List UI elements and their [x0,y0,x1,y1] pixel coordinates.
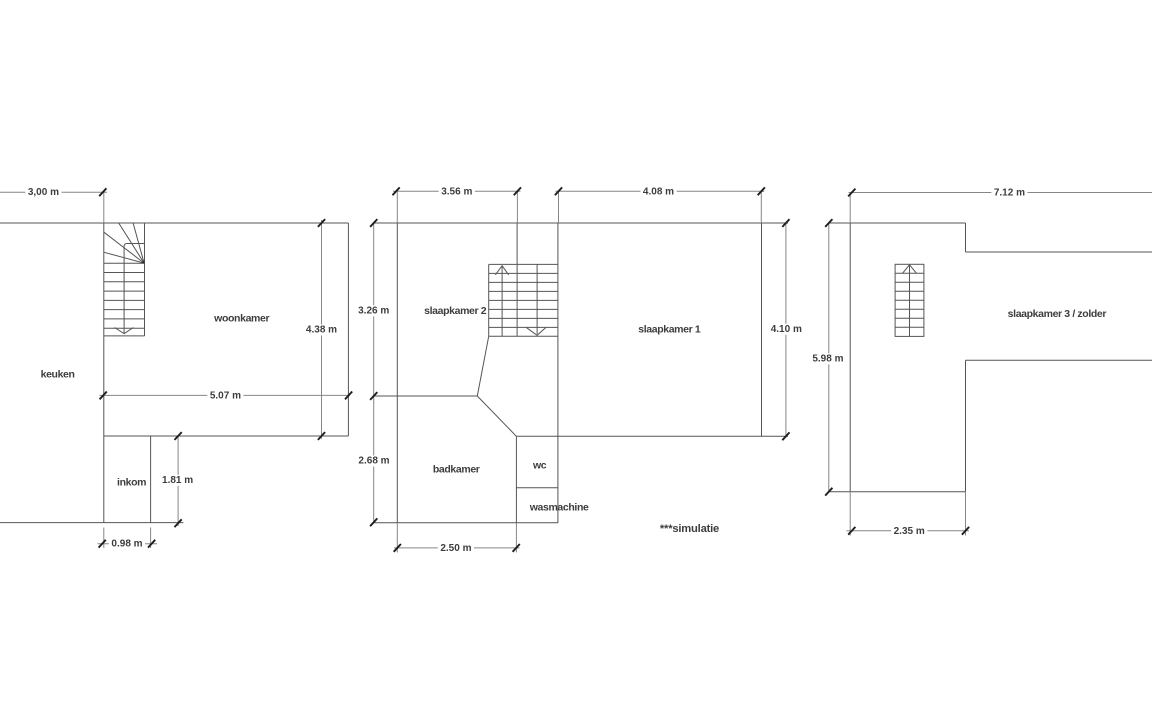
wall: stairwell left above stair [516,223,518,264]
dimension 1.81 m [160,432,196,527]
wall: right plan bottom (with dim extension) [829,491,966,493]
svg-text:0.98 m: 0.98 m [111,539,142,550]
svg-text:2.50 m: 2.50 m [440,543,471,554]
wall: woonkamer bottom [104,435,349,437]
svg-text:3.56 m: 3.56 m [441,186,472,197]
wall: diagonal badkamer corner to wc corner [477,396,516,436]
wall: right vertical lower [965,360,967,491]
wall: left plan right [347,223,349,436]
wall: left plan top [0,222,348,224]
dimension 7.12 m [848,187,1152,223]
svg-text:badkamer: badkamer [433,464,480,476]
svg-text:3.26 m: 3.26 m [358,306,389,317]
svg-text:5.98 m: 5.98 m [812,354,843,365]
dimensions 3.26 m and 2.68 m [356,219,393,526]
svg-text:2.68 m: 2.68 m [358,456,389,467]
svg-text:inkom: inkom [117,476,146,488]
svg-text:5.07 m: 5.07 m [210,390,241,401]
wall: middle plan right [761,223,763,436]
wall: slaapkamer 1 bottom / wc top (with dim extension) [516,435,788,437]
svg-text:slaapkamer 1: slaapkamer 1 [638,323,701,335]
wall: wc/wasmachine divider [516,487,558,489]
right plan: attic / slaapkamer 3 [810,187,1152,537]
wall: inkom right [150,436,152,523]
stair: ground floor winder staircase [104,223,145,336]
dimension 4.08 m [555,186,765,223]
svg-text:4.08 m: 4.08 m [643,186,674,197]
dimension 3,00 m [0,187,107,223]
svg-text:keuken: keuken [41,368,75,380]
wall: middle plan bottom (with dim extension) [374,522,558,524]
wall: right plan top (with dim extension) [829,222,966,224]
svg-text:woonkamer: woonkamer [213,312,269,324]
dimension 5.07 m [100,390,353,401]
svg-text:slaapkamer 3 / zolder: slaapkamer 3 / zolder [1008,308,1107,320]
dimension 2.50 m [394,523,520,554]
svg-text:7.12 m: 7.12 m [994,188,1025,199]
svg-text:wasmachine: wasmachine [529,502,589,514]
svg-text:***simulatie: ***simulatie [660,523,719,535]
dimension 4.10 m [768,219,804,440]
wall: left plan bottom + extension [0,522,183,524]
wall: right arm upper [966,251,1152,253]
wall: notch right upper [965,223,967,252]
svg-text:wc: wc [532,459,547,471]
wall: badkamer top (with dim extension) [374,395,478,397]
wall: middle plan left [396,223,398,523]
left plan: ground floor [0,187,352,550]
dimension 5.98 m [810,219,846,496]
wall: middle plan top (with dim extensions) [374,222,788,224]
wall: stairwell right full height [557,223,559,523]
wall: keuken/woonkamer divider [103,223,105,523]
svg-text:3,00 m: 3,00 m [28,187,59,198]
wall: right plan left [849,223,851,492]
middle plan: first floor [356,186,805,554]
wall: right arm lower [966,359,1152,361]
dimension 3.56 m [393,186,522,223]
wall: diagonal stair to badkamer corner [477,336,488,396]
svg-text:slaapkamer 2: slaapkamer 2 [424,305,487,317]
svg-text:4.10 m: 4.10 m [771,324,802,335]
dimension 4.38 m [303,219,339,440]
stair: attic staircase [895,264,924,336]
dimension 2.35 m [847,492,970,537]
wall: wc/wasmachine left [515,436,517,523]
svg-text:1.81 m: 1.81 m [162,475,193,486]
svg-text:4.38 m: 4.38 m [306,325,337,336]
dimension 0.98 m [98,528,158,550]
stair: first floor staircase (up and down arrows) [489,264,558,336]
svg-text:2.35 m: 2.35 m [894,526,925,537]
